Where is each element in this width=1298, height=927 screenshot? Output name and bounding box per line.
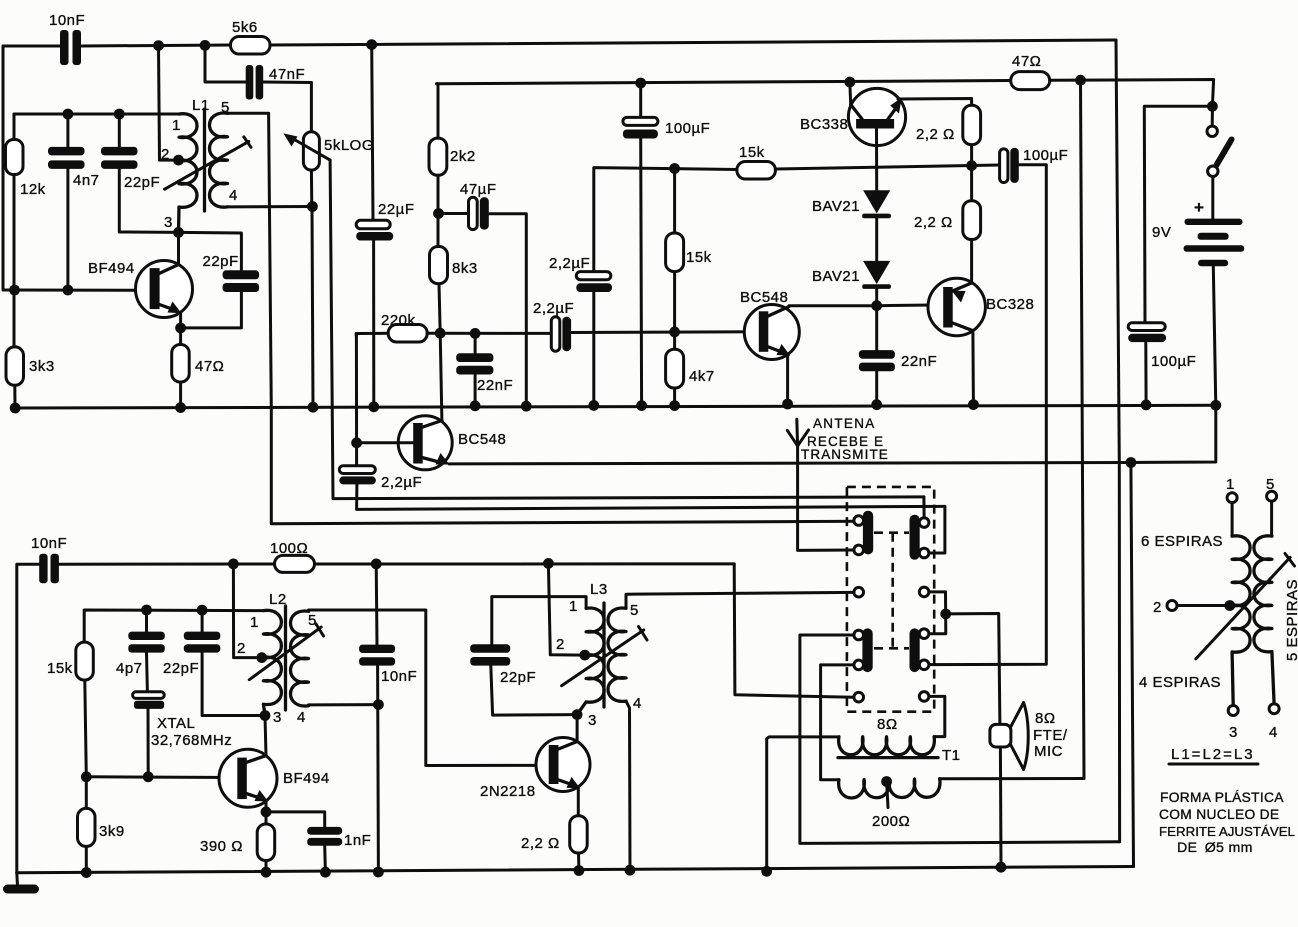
switch contact L6 xyxy=(854,692,864,702)
capacitor 22nF (left) xyxy=(456,333,493,405)
capacitor 2,2uF (at BC548 lower base) xyxy=(339,466,376,485)
svg-text:47µF: 47µF xyxy=(460,181,497,198)
wire: BF494 osc emitter node xyxy=(265,802,268,812)
wire: L2 pin5 lead to 2N2218 base xyxy=(309,610,550,766)
wire: BF494 collector up to L1 pin3 node xyxy=(177,232,180,264)
node: junction top rail / 47nF drop xyxy=(200,40,211,51)
node: L3 pin4 on bottom bus xyxy=(625,865,636,876)
coil detail right winding 5 espiras xyxy=(1254,501,1274,704)
wire: 200ohm riser (down to T1 secondary) xyxy=(1081,80,1085,778)
svg-text:390 Ω: 390 Ω xyxy=(200,838,243,855)
wire: branch to 100uF no.3 xyxy=(1144,106,1212,322)
node: mid bus right end / battery junction xyxy=(1210,400,1221,411)
svg-text:3: 3 xyxy=(164,214,173,231)
resistor 2k2 xyxy=(429,138,447,175)
transistor Q2 BC548 (lower, modulator) xyxy=(398,416,452,470)
svg-text:3k9: 3k9 xyxy=(99,823,125,840)
svg-text:2: 2 xyxy=(1153,599,1162,616)
svg-text:15k: 15k xyxy=(739,144,765,161)
svg-text:1: 1 xyxy=(1226,476,1235,493)
svg-text:ANTENA: ANTENA xyxy=(813,416,876,431)
svg-text:2: 2 xyxy=(556,636,565,653)
node: emitter / 47ohm junction xyxy=(175,323,186,334)
node: coil detail tap 2 xyxy=(1224,600,1235,611)
svg-text:5: 5 xyxy=(1266,476,1275,493)
svg-text:5k6: 5k6 xyxy=(232,19,258,36)
switch DPDT dashed outline xyxy=(847,487,934,712)
svg-text:2N2218: 2N2218 xyxy=(480,783,536,800)
svg-text:1: 1 xyxy=(172,117,181,134)
transistor Q5 BC328 (PNP) xyxy=(928,278,985,335)
wire: 200ohm winding right to riser xyxy=(940,777,1084,780)
node: 3k9 on bottom bus xyxy=(81,867,92,878)
wire: 3k9 top from base node xyxy=(85,777,88,809)
wire: BF494 lower base line xyxy=(86,775,238,779)
inductor L2 left winding with pin3 lead xyxy=(263,610,281,715)
wire: top rail right of 5k6 to far right corner, down at x=1116 xyxy=(270,40,1116,45)
resistor 3k3 xyxy=(6,347,24,385)
wire: BC548 lower collector up to 220k line (crosses mid bus) xyxy=(440,333,442,420)
wire: emitter node into 47 ohm xyxy=(179,328,182,345)
wire: mic line drop to contact R2 xyxy=(929,506,945,553)
wire: BF494 osc collector up to L2 pin3 node xyxy=(265,716,266,756)
node: 200ohm center tap xyxy=(881,776,892,787)
L2 adjuster arrow xyxy=(249,624,323,680)
svg-text:DE Ø5 mm: DE Ø5 mm xyxy=(1177,840,1253,856)
svg-text:+: + xyxy=(1194,198,1204,217)
wire: 22pF feedback line to cap column corner xyxy=(179,232,242,270)
wire: antenna lead to contact2-left xyxy=(798,446,854,551)
svg-text:2,2 Ω: 2,2 Ω xyxy=(521,835,560,852)
L3 adjuster arrow xyxy=(562,627,647,686)
wire: 390ohm bottom to bottom bus xyxy=(265,861,268,873)
node: 22nF right on mid bus xyxy=(871,399,882,410)
transformer T1 8ohm winding xyxy=(839,737,935,755)
svg-text:100Ω: 100Ω xyxy=(270,540,308,557)
node: base line / 15k vertical junction xyxy=(669,327,680,338)
capacitor 47nF xyxy=(246,65,264,100)
svg-text:FERRITE AJUSTÁVEL: FERRITE AJUSTÁVEL xyxy=(1159,824,1295,839)
switch contact L2 (antenna) xyxy=(854,545,864,555)
svg-text:100µF: 100µF xyxy=(1023,147,1068,164)
wire: battery negative drop to receive-transmit common xyxy=(1131,405,1216,462)
wire: contact R6 to T1 8ohm winding right xyxy=(929,696,945,736)
wire: 2N2218 emitter to 2,2ohm xyxy=(577,789,580,816)
wire: XTAL bottom to base line xyxy=(147,709,150,777)
node: L3 pin3 junction xyxy=(572,709,583,720)
svg-text:15k: 15k xyxy=(47,660,73,677)
wire: 220k-left vertical down to 2,2uF cap xyxy=(355,334,358,466)
svg-text:5: 5 xyxy=(308,612,317,629)
wire: BC338 base to diode chain xyxy=(875,129,878,191)
node: second rail / BC338 collector junction xyxy=(844,77,855,88)
switch contact L1 (to transmit tank) xyxy=(854,516,864,526)
resistor 5k6 (horizontal, in top rail) xyxy=(231,37,271,55)
node: pin4 rail on mid bus xyxy=(308,402,319,413)
wire: 47nF right lead to 5kLOG pot top xyxy=(263,82,311,132)
wire: L3 pin1 to 22pF link xyxy=(492,597,586,645)
wire: contact L4 line down and right to top-rail riser xyxy=(800,635,1120,843)
resistor 4k7 xyxy=(666,332,684,406)
svg-text:4: 4 xyxy=(1269,724,1278,741)
node: 15k line / 2,2ohm no.1 junction xyxy=(966,160,977,171)
wire: 22pF bottom to emitter node xyxy=(181,292,242,328)
wire: 15k line to 100uF no.2 xyxy=(775,165,999,169)
resistor 2,2ohm no.1 xyxy=(963,105,981,144)
wire: 47ohm bottom to mid bus xyxy=(179,382,182,408)
svg-text:XTAL: XTAL xyxy=(157,715,195,732)
svg-text:4 ESPIRAS: 4 ESPIRAS xyxy=(1139,674,1221,691)
svg-text:8k3: 8k3 xyxy=(452,260,478,277)
node: 100uF no.3 on mid bus xyxy=(1141,400,1152,411)
wire: 2,2uF bottom to mic line xyxy=(357,484,945,509)
wire: top-left corner drop to BF494 base line xyxy=(3,46,14,290)
wire: L2 pin2 tap feed xyxy=(233,564,261,658)
capacitor 22pF (L3 tank) xyxy=(470,644,577,715)
svg-text:10nF: 10nF xyxy=(381,668,417,685)
node: junction 4n7 top xyxy=(63,109,74,120)
svg-text:6 ESPIRAS: 6 ESPIRAS xyxy=(1141,533,1223,550)
wire: diode chain to BC548 collector node xyxy=(875,289,878,306)
coil detail terminal 4 circle xyxy=(1269,704,1279,714)
svg-text:12k: 12k xyxy=(20,181,46,198)
node: 15k / XTAL line junction xyxy=(81,771,92,782)
svg-text:FORMA PLÁSTICA: FORMA PLÁSTICA xyxy=(1160,789,1284,805)
wire: 47uF right lead down to mid bus xyxy=(489,214,527,407)
svg-text:L1=L2=L3: L1=L2=L3 xyxy=(1171,746,1255,763)
wire: battery negative down to bus end xyxy=(1213,266,1216,405)
wire: between diodes xyxy=(875,218,878,261)
node: osc line / 22pF junction xyxy=(197,605,208,616)
wire: speaker bottom to bottom bus xyxy=(999,747,1003,867)
node: emitter / 390ohm / 1nF junction xyxy=(261,807,272,818)
wire: 2,2ohm bottom to bottom bus xyxy=(577,853,580,871)
node: 47uF rail on mid bus xyxy=(521,401,532,412)
wire: rail from top-right corner down to contact4 run xyxy=(1116,40,1120,842)
resistor 47ohm top right xyxy=(1011,72,1050,90)
node: junction top rail / 22uF rail xyxy=(366,39,377,50)
capacitor 22pF (xtal osc) xyxy=(184,610,265,715)
speaker 8ohm FTE/MIC xyxy=(990,703,1028,770)
coil detail terminal 2 circle xyxy=(1167,601,1177,611)
node: ground riser on bottom bus xyxy=(761,866,772,877)
svg-text:1: 1 xyxy=(569,598,578,615)
wire: drop from top rail to L1 pin 2 tap xyxy=(159,46,179,160)
resistor 15k horizontal xyxy=(737,162,776,180)
resistor 3k9 xyxy=(78,808,96,846)
svg-text:2,2µF: 2,2µF xyxy=(533,300,574,317)
svg-text:2k2: 2k2 xyxy=(450,148,476,165)
transistor Q6 BF494 (crystal oscillator) xyxy=(219,749,277,807)
svg-text:BC338: BC338 xyxy=(800,116,848,133)
coil detail terminal 3 circle xyxy=(1228,706,1238,716)
svg-text:5: 5 xyxy=(221,99,230,116)
svg-text:10nF: 10nF xyxy=(49,12,85,29)
wire: wiper line drop to contact R1 xyxy=(922,497,925,518)
svg-text:22pF: 22pF xyxy=(203,253,239,270)
svg-text:1nF: 1nF xyxy=(344,832,371,849)
wire: second rail (2k2 / BC338 / 47ohm line) xyxy=(437,81,1011,84)
wire: emitter-follower line (BC548 lower emitter to common) xyxy=(449,463,1131,464)
wire: speaker feed line xyxy=(946,614,1000,725)
node: supply / L2 pin2 drop junction xyxy=(228,559,239,570)
wire: BC548 upper emitter to mid bus xyxy=(786,356,789,404)
wire: 8k3 bottom to 220k line xyxy=(439,284,440,334)
wire: L2 pin4 lead xyxy=(309,703,379,706)
svg-text:4n7: 4n7 xyxy=(73,172,100,189)
wire: top rail middle segment xyxy=(81,45,231,46)
node: mid bus left end xyxy=(10,403,21,414)
wire: ground riser to 8ohm winding left xyxy=(767,737,839,871)
wire: L1 pin1 feed line y=114 xyxy=(14,113,179,116)
svg-text:2: 2 xyxy=(237,640,246,657)
wire: BC548 upper collector to diode node xyxy=(789,304,877,308)
wire: 3k3 bottom to mid bus xyxy=(13,385,16,408)
wire: 22uF bottom to mid bus xyxy=(372,241,375,407)
switch contact L3 (receive tank) xyxy=(854,587,864,597)
svg-text:220k: 220k xyxy=(381,312,416,329)
wire: L1 pin5 lead to right rail xyxy=(228,113,859,523)
wire: BF494 base line xyxy=(14,289,150,292)
node: supply / 10nF decoupling junction xyxy=(371,559,382,570)
node: 220k line / 8k3 bottom junction xyxy=(435,328,446,339)
svg-text:3: 3 xyxy=(1229,724,1238,741)
capacitor 100uF no.2 electrolytic xyxy=(1000,148,1019,183)
svg-text:BC548: BC548 xyxy=(458,431,506,448)
node: switch feed junction xyxy=(1207,101,1218,112)
svg-text:1: 1 xyxy=(250,614,259,631)
svg-text:COM NUCLEO DE: COM NUCLEO DE xyxy=(1159,807,1279,822)
node: second rail / 100uF junction xyxy=(635,78,646,89)
switch contact R1 xyxy=(919,518,929,528)
svg-text:5 ESPIRAS: 5 ESPIRAS xyxy=(1284,579,1298,661)
node: 1nF on bottom bus xyxy=(320,867,331,878)
svg-text:3: 3 xyxy=(273,709,282,726)
switch contact L5 xyxy=(854,660,864,670)
svg-text:2: 2 xyxy=(161,146,170,163)
node: diode / BC548 collector / BC328 base junction xyxy=(871,300,882,311)
inductor L1 left winding with pin3 lead xyxy=(179,114,198,233)
svg-text:FTE/: FTE/ xyxy=(1033,727,1068,744)
wire: 15k feed line with corner to 2,2uF vertical xyxy=(594,168,737,272)
resistor 390ohm xyxy=(257,824,275,861)
transformer T1 200ohm winding xyxy=(839,779,940,798)
wire: mid bus (ground rail of top section) xyxy=(15,405,1216,408)
node: junction 22pF top xyxy=(114,109,125,120)
coil detail left winding 6+4 espiras xyxy=(1232,503,1250,706)
capacitor 22pF (L1 tank) xyxy=(101,114,179,232)
wire: pot wiper tail down to receive line xyxy=(330,160,924,499)
capacitor 22pF (feedback at BF494) xyxy=(223,270,260,292)
node: speaker on bottom bus xyxy=(996,862,1007,873)
wire: rail down to bottom bus corner xyxy=(1130,463,1134,867)
svg-text:22µF: 22µF xyxy=(378,201,415,218)
coil detail adjuster arrow xyxy=(1196,554,1295,659)
switch SW1 on-off xyxy=(1207,112,1232,177)
svg-text:4: 4 xyxy=(229,187,238,204)
wire: pot bottom lead to L1 pin4 node xyxy=(310,170,313,206)
switch contact bar lower-right xyxy=(910,628,920,672)
svg-text:3k3: 3k3 xyxy=(29,358,55,375)
node: 2,2uF vertical on mid bus xyxy=(588,400,599,411)
wire: BC328 emitter up to 2,2ohm no.2 xyxy=(970,240,973,284)
wire: L3 pin3 down to 2N2218 collector xyxy=(576,715,579,742)
wire: 12k top lead corner xyxy=(13,114,16,140)
svg-text:32,768MHz: 32,768MHz xyxy=(151,732,232,749)
wire: top supply rail left segment xyxy=(3,45,61,48)
node: L3 pin2 tap xyxy=(579,650,590,661)
node: L2 pin3 junction xyxy=(260,710,271,721)
capacitor C 10nF (top-left, in series with top rail) xyxy=(60,30,81,65)
wire: BC548 lower base line xyxy=(357,441,414,444)
node: 2,2ohm on bottom bus xyxy=(574,865,585,876)
svg-text:22nF: 22nF xyxy=(477,377,513,394)
node: 4k7 on mid bus xyxy=(669,400,680,411)
svg-text:47Ω: 47Ω xyxy=(195,358,224,375)
switch contact L4 xyxy=(854,630,864,640)
node: 10nF on bottom bus xyxy=(373,867,384,878)
capacitor 4p7 xyxy=(128,610,165,692)
switch contact bar upper-left xyxy=(863,511,873,555)
resistor 12k xyxy=(6,140,24,175)
wire: 2k2 bottom to 47uF node xyxy=(437,175,440,246)
potentiometer 5kLOG xyxy=(283,132,330,170)
svg-text:3: 3 xyxy=(588,712,597,729)
battery B1 9V xyxy=(1184,219,1245,267)
T1 core xyxy=(838,756,938,759)
crystal XTAL 32,768MHz xyxy=(133,692,165,709)
node: base tee on 220k rail xyxy=(351,437,362,448)
capacitor 100uF no.1 electrolytic xyxy=(623,83,658,406)
resistor 47ohm (BF494 emitter) xyxy=(172,345,190,383)
wire: 47nF left lead from top rail xyxy=(205,46,246,82)
switch contact R5 xyxy=(919,660,929,670)
node: 47uF tap junction xyxy=(433,208,444,219)
capacitor 22nF (right) xyxy=(859,350,895,405)
capacitor 4n7 xyxy=(48,114,85,290)
svg-text:22nF: 22nF xyxy=(901,353,937,370)
wire: lower supply line to 100ohm xyxy=(59,563,275,566)
wire: 15k lower bottom to base node xyxy=(85,680,87,777)
svg-text:BC328: BC328 xyxy=(986,296,1034,313)
node: 220k line / 22nF top junction xyxy=(470,328,481,339)
wire: contact R3 to R4 link xyxy=(929,592,946,634)
switch contact bar upper-right xyxy=(910,515,920,560)
wire: BF494 emitter to emitter node xyxy=(179,313,182,328)
wire: 3k9 bottom to bottom bus xyxy=(85,846,88,872)
inductor L3 right winding xyxy=(608,608,626,701)
coil detail terminal 5 circle xyxy=(1267,491,1277,501)
wire: pin4 node down to mid bus xyxy=(312,207,313,408)
switch contact R6 xyxy=(919,692,929,702)
svg-text:2,2µF: 2,2µF xyxy=(549,255,590,272)
svg-text:BF494: BF494 xyxy=(88,260,135,277)
label L1=L2=L3 xyxy=(1169,746,1258,764)
node: 390ohm on bottom bus xyxy=(261,867,272,878)
wire: emitter node into 390ohm xyxy=(265,812,268,824)
wire: BC328 base line xyxy=(877,303,945,307)
svg-text:MIC: MIC xyxy=(1034,743,1063,760)
transistor Q4 BC338 (driver) xyxy=(848,88,905,145)
wire: 2k2 top corner from second rail xyxy=(437,84,438,138)
wire: supply line from 100ohm to contact L6 corner xyxy=(315,562,735,565)
wire: terminal 2 lead xyxy=(1177,604,1230,607)
wire: 47uF left lead xyxy=(439,212,469,215)
diode D2 BAV21 xyxy=(862,261,891,289)
wire: L3 pin5 lead to contact L3 xyxy=(626,592,854,608)
wire: L1 pin4 lead to pot bottom node xyxy=(228,205,314,208)
svg-text:47nF: 47nF xyxy=(269,66,305,83)
capacitor 2,2uF vertical electrolytic xyxy=(576,272,612,406)
svg-text:200Ω: 200Ω xyxy=(872,813,910,830)
svg-text:BAV21: BAV21 xyxy=(812,268,860,285)
svg-text:5kLOG: 5kLOG xyxy=(324,137,374,154)
svg-text:22pF: 22pF xyxy=(163,660,199,677)
svg-text:L1: L1 xyxy=(192,97,210,114)
inductor L2 right winding xyxy=(291,611,309,706)
svg-text:4p7: 4p7 xyxy=(116,660,143,677)
node: junction top rail / L1 pin2 drop xyxy=(153,40,164,51)
svg-text:2,2 Ω: 2,2 Ω xyxy=(914,214,953,231)
node: 47ohm on mid bus xyxy=(175,402,186,413)
svg-text:BF494: BF494 xyxy=(283,770,330,787)
switch contact R4 xyxy=(919,629,929,639)
wire: oscillator top line y=610 xyxy=(84,610,263,642)
node: base line / 4n7 junction xyxy=(63,285,74,296)
resistor 15k lower xyxy=(76,642,94,680)
L1 adjuster arrow xyxy=(165,137,251,189)
wire: base line to BC548 upper xyxy=(571,330,759,334)
svg-text:TRANSMITE: TRANSMITE xyxy=(801,447,889,462)
wire: 2,2ohm no.1 bottom to 15k line xyxy=(970,145,973,166)
node: second rail / 200ohm riser junction xyxy=(1075,75,1086,86)
node: L1 pin2 tap xyxy=(173,155,184,166)
node: L1 pin3 / collector / 22pF line junction xyxy=(173,227,184,238)
wire: center tap stub xyxy=(887,782,888,808)
capacitor 22uF electrolytic xyxy=(356,220,393,240)
svg-text:L3: L3 xyxy=(590,581,608,598)
switch contact bar lower-left xyxy=(862,628,872,672)
L1 core xyxy=(203,109,206,211)
resistor 8k3 xyxy=(430,247,448,284)
svg-text:22pF: 22pF xyxy=(500,669,536,686)
node: XTAL on base line xyxy=(143,771,154,782)
node: BC548 upper emitter on mid bus xyxy=(782,399,793,410)
wire: 22uF rail from top rail xyxy=(372,45,373,221)
capacitor C 10nF (lower-left, series) xyxy=(39,554,59,584)
coil detail terminal 1 circle xyxy=(1227,493,1237,503)
capacitor 47uF electrolytic xyxy=(469,197,489,229)
wire: 100uF no.2 right lead down long rail to contact5-right xyxy=(929,165,1047,665)
transistor Q7 2N2218 (transmit osc) xyxy=(536,738,590,792)
node: 22uF on mid bus xyxy=(368,401,379,412)
node: osc line / 4p7 junction xyxy=(141,605,152,616)
wire: bottom bus (lower ground rail) xyxy=(17,867,1134,873)
capacitor 10nF (lower decoupling) xyxy=(359,564,395,872)
wire: contact L6 feed from supply line xyxy=(734,564,854,697)
transistor Q3 BC548 (upper audio) xyxy=(744,305,799,360)
node: pot bottom / L1 pin4 junction xyxy=(307,201,318,212)
L2 core xyxy=(284,606,287,710)
node: 10nF / L2 pin4 junction xyxy=(373,699,384,710)
svg-text:100µF: 100µF xyxy=(1151,353,1196,370)
wire: L3 pin2 feed from supply xyxy=(548,563,583,655)
svg-text:2,2 Ω: 2,2 Ω xyxy=(916,126,955,143)
resistor 220k xyxy=(388,325,427,343)
resistor 2,2ohm (2N2218 emitter) xyxy=(570,816,588,853)
capacitor 100uF no.3 electrolytic xyxy=(1128,323,1166,405)
node: BC328 collector on mid bus xyxy=(968,399,979,410)
